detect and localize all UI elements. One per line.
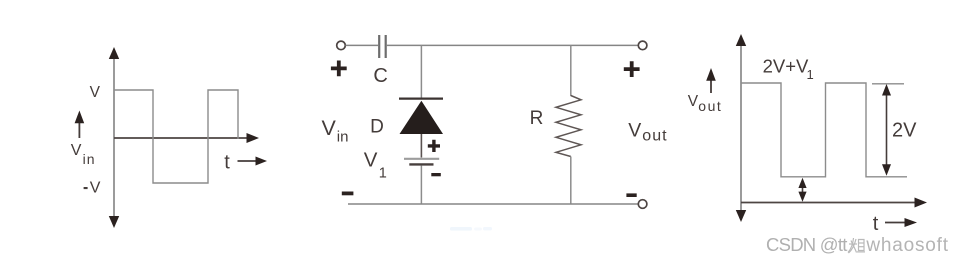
input plot horizontal axis (t) bbox=[114, 133, 259, 143]
label 2V+V1 bbox=[763, 55, 814, 82]
svg-text:out: out bbox=[642, 128, 667, 145]
Vin up arrow (input polarity) bbox=[75, 111, 85, 139]
2V dimension double arrow bbox=[882, 84, 891, 176]
wire: resistor to bottom rail bbox=[570, 157, 572, 205]
plus sign at output (top-right) bbox=[624, 61, 640, 77]
svg-text:t: t bbox=[873, 213, 879, 235]
svg-text:C: C bbox=[373, 65, 387, 87]
svg-text:out: out bbox=[698, 98, 722, 114]
input square waveform bbox=[114, 90, 238, 183]
label Vin (circuit input) bbox=[322, 116, 349, 146]
output terminal (bottom-right, open circle) bbox=[638, 200, 647, 209]
wire: top rail to resistor bbox=[570, 45, 572, 96]
battery plus sign bbox=[428, 140, 440, 152]
diode D (cathode bar) bbox=[399, 97, 443, 99]
faint watermark smudge (center bottom) bbox=[450, 227, 492, 231]
svg-text:V: V bbox=[90, 180, 101, 197]
Vout up arrow (output polarity) bbox=[706, 68, 716, 93]
top reference tick (2V+V1 level) bbox=[872, 83, 904, 85]
svg-text:2V+V: 2V+V bbox=[763, 55, 809, 76]
battery minus sign bbox=[431, 173, 441, 176]
svg-text:in: in bbox=[83, 151, 96, 167]
output terminal (top-right, open circle) bbox=[638, 41, 647, 50]
svg-text:whaosoft: whaosoft bbox=[865, 235, 948, 256]
svg-text:1: 1 bbox=[807, 67, 814, 82]
output square waveform bbox=[741, 83, 907, 177]
wire: battery to bottom rail bbox=[420, 166, 422, 205]
svg-text:1: 1 bbox=[379, 166, 387, 182]
svg-text:R: R bbox=[530, 108, 544, 129]
output plot vertical axis bbox=[736, 34, 746, 222]
svg-text:in: in bbox=[337, 129, 349, 146]
wire: diode anode to battery bbox=[420, 134, 422, 158]
label Vout (output plot) bbox=[688, 93, 722, 114]
diode D (triangle, anode below) bbox=[400, 101, 444, 134]
wire: input terminal to capacitor bbox=[346, 44, 379, 46]
svg-text:V: V bbox=[688, 93, 699, 110]
battery V1 positive plate (long) bbox=[404, 158, 439, 160]
svg-text:t: t bbox=[224, 151, 230, 173]
label V1 bbox=[364, 149, 387, 182]
plus sign at input (top-left) bbox=[331, 61, 347, 77]
battery V1 negative plate (short) bbox=[409, 163, 433, 165]
wire: top rail to diode cathode bbox=[420, 45, 422, 98]
capacitor C plates bbox=[379, 35, 386, 58]
svg-text:V: V bbox=[628, 119, 641, 141]
label -V (input low level) bbox=[84, 180, 101, 197]
resistor R zigzag bbox=[556, 96, 581, 157]
minus sign at input (bottom-left) bbox=[342, 192, 354, 196]
label t with arrow (output plot) bbox=[873, 213, 917, 235]
label t with arrow (input plot) bbox=[224, 151, 267, 173]
small offset double arrow (V1 level above axis) bbox=[798, 178, 806, 202]
svg-text:2V: 2V bbox=[892, 119, 917, 141]
svg-text:V: V bbox=[364, 149, 378, 172]
input terminal (top-left, open circle) bbox=[337, 41, 346, 50]
minus sign at output (bottom-right) bbox=[626, 193, 636, 197]
label Vin (input plot) bbox=[71, 142, 96, 167]
svg-text:CSDN @tt: CSDN @tt bbox=[766, 234, 847, 255]
svg-text:D: D bbox=[370, 117, 384, 138]
wire: capacitor to output terminal (top rail) bbox=[387, 44, 639, 46]
svg-text:V: V bbox=[90, 84, 101, 101]
svg-text:V: V bbox=[322, 116, 337, 140]
output plot horizontal axis (t) bbox=[741, 198, 927, 208]
label Vout (circuit output) bbox=[628, 119, 667, 144]
watermark CJK glyph bbox=[848, 238, 865, 253]
bottom rail wire bbox=[348, 203, 638, 205]
input plot vertical axis bbox=[109, 47, 119, 228]
svg-text:V: V bbox=[71, 142, 82, 159]
